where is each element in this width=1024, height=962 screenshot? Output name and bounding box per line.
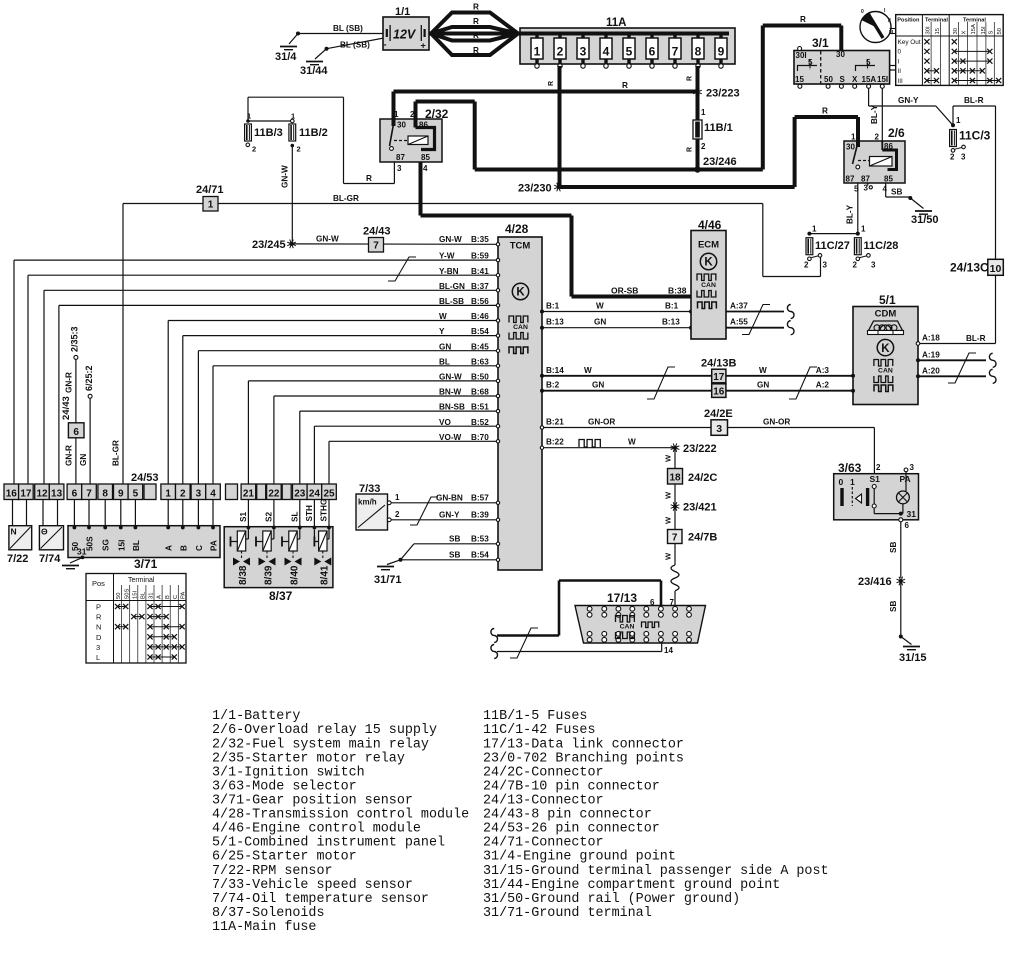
svg-text:1: 1 [812,225,817,234]
svg-text:24/71: 24/71 [196,184,224,196]
wire R rail to ignition switch 3/1 [416,15,842,170]
svg-text:1: 1 [851,133,856,142]
svg-text:R: R [622,81,628,90]
svg-text:D: D [96,633,102,642]
svg-text:6: 6 [72,489,78,500]
svg-text:3/63: 3/63 [838,461,862,475]
svg-text:R: R [473,17,479,26]
svg-text:BL (SB): BL (SB) [340,41,370,50]
fuse 11B/2 [289,112,328,154]
wire GN-OR TCM B:21 to 24/2E [540,418,711,430]
svg-text:km/h: km/h [358,498,377,507]
cable slash 17/13 left [510,628,538,658]
wire 24/53 16 to 7/22 [12,500,14,526]
svg-text:B:39: B:39 [471,510,489,519]
RPM sensor 7/22 [7,526,32,565]
fuse 11A:2 [554,34,566,69]
svg-text:24/13-Connector: 24/13-Connector [483,794,604,809]
svg-text:50S: 50S [86,536,95,551]
svg-text:7: 7 [373,241,379,252]
svg-text:B:63: B:63 [471,357,489,366]
svg-text:0: 0 [861,9,864,15]
svg-text:31: 31 [907,509,917,519]
fuse 11A:4 [600,34,612,69]
svg-text:BL: BL [439,357,450,366]
svg-text:5: 5 [133,489,139,500]
svg-text:31/71-Ground terminal: 31/71-Ground terminal [483,906,652,921]
wire 24/53 17 to 7/22 [26,500,28,526]
svg-text:24/71-Connector: 24/71-Connector [483,836,604,851]
wire BN-SB TCM B:51 to 24/53 [300,403,500,484]
svg-text:B:41: B:41 [471,267,489,276]
svg-text:SB: SB [449,550,460,559]
wire GN 24/13B 16 to CDM A:2 [726,381,853,391]
svg-text:87: 87 [861,175,870,184]
svg-text:A:2: A:2 [816,381,830,390]
svg-text:8: 8 [102,489,108,500]
svg-text:11C/3: 11C/3 [959,129,991,143]
svg-text:15I: 15I [117,540,126,551]
wire 24/53 12 to 7/74 [42,500,44,526]
svg-text:11C/27: 11C/27 [815,240,850,252]
wire GN TCM B:2 to 24/13B 16 [540,381,712,393]
svg-text:23/222: 23/222 [683,443,717,455]
wire S1 24/53 21 to 8/38 [239,500,250,530]
svg-text:PA: PA [181,592,187,599]
svg-text:S2: S2 [265,512,274,522]
svg-text:Y-W: Y-W [439,252,455,261]
svg-text:50: 50 [997,28,1003,34]
svg-text:87: 87 [396,153,405,162]
wire pin1 rail 11B/3 to 11B/2 [248,120,292,122]
svg-text:30I: 30I [796,51,807,60]
svg-text:III: III [898,78,904,85]
connector 24/43 pin 6 [68,423,84,438]
svg-text:11A-Main fuse: 11A-Main fuse [212,920,316,935]
fuse 11A:9 [715,34,727,69]
svg-text:TCM: TCM [510,241,531,252]
svg-text:22: 22 [268,489,280,500]
svg-text:Key Out: Key Out [898,39,921,46]
svg-text:B:1: B:1 [546,302,560,311]
svg-text:4/46-Engine control module: 4/46-Engine control module [212,822,421,837]
wire bundle R x4 battery to 11A [429,3,520,56]
ground 31/15 [899,637,927,665]
svg-text:5: 5 [626,45,633,59]
wire A:55 ECM continuation [726,318,794,335]
ground 31/44 [300,47,329,77]
wire R fuse 11A:2 down to 23/230 [548,66,560,187]
svg-text:A:3: A:3 [816,366,830,375]
solenoid block 8/37 [224,527,333,588]
svg-text:21: 21 [243,489,255,500]
main fuse box 11A [518,17,735,64]
svg-text:B:37: B:37 [471,282,489,291]
svg-text:23/246: 23/246 [703,156,737,168]
svg-text:W: W [439,312,447,321]
svg-text:R: R [822,107,828,116]
svg-text:3: 3 [580,45,587,59]
svg-text:R: R [96,613,102,622]
svg-text:GN-W: GN-W [316,235,339,244]
svg-text:B:46: B:46 [471,312,489,321]
cable slash 7/33 [410,497,438,525]
fuse 11C/3 [950,116,991,162]
svg-text:B:1: B:1 [665,302,679,311]
svg-text:4: 4 [210,489,216,500]
svg-text:II: II [898,68,902,75]
svg-text:23/0-702 Branching points: 23/0-702 Branching points [483,751,684,766]
svg-text:7/74: 7/74 [39,553,61,565]
svg-text:B:70: B:70 [471,433,489,442]
svg-text:23/421: 23/421 [683,502,717,514]
node 23/246 [694,156,736,173]
svg-text:W: W [664,454,673,462]
svg-text:2: 2 [950,153,955,162]
svg-text:15: 15 [935,28,941,34]
svg-text:W: W [664,516,673,524]
svg-text:2: 2 [557,45,564,59]
svg-text:17/13: 17/13 [607,591,637,605]
svg-text:0: 0 [898,49,902,56]
svg-text:ECM: ECM [698,240,719,251]
svg-text:2: 2 [180,489,186,500]
cable slash TCM left [388,257,416,281]
wire SB TCM B:54 to 31/71 [399,550,500,562]
svg-text:3/63-Mode selector: 3/63-Mode selector [212,780,357,795]
svg-text:9: 9 [718,45,725,59]
pin circle TCM B:35 [439,235,500,246]
svg-text:BN-W: BN-W [439,388,462,397]
svg-text:W: W [628,438,636,447]
svg-text:23: 23 [294,489,306,500]
svg-text:B:57: B:57 [471,493,489,502]
svg-text:W: W [664,491,673,499]
node 23/245 [252,239,296,251]
svg-text:15: 15 [795,75,804,84]
svg-text:SB: SB [889,542,898,553]
wire W 23/421 to 24/7B [664,507,676,530]
svg-text:8/41: 8/41 [319,565,330,585]
svg-text:6: 6 [73,427,79,438]
svg-text:23/245: 23/245 [252,239,286,251]
svg-text:B:68: B:68 [471,388,489,397]
svg-text:2/35-Starter motor relay: 2/35-Starter motor relay [212,751,405,766]
svg-text:17: 17 [20,489,32,500]
svg-text:BN-SB: BN-SB [439,403,465,412]
svg-text:A:55: A:55 [730,318,748,327]
svg-text:8/39: 8/39 [264,565,275,585]
svg-text:15A: 15A [971,24,977,34]
cable slash ECM right [742,305,770,335]
fuse 11A:7 [669,34,681,69]
svg-text:BL-SB: BL-SB [439,297,464,306]
svg-text:1: 1 [701,108,706,117]
svg-text:11B/3: 11B/3 [254,127,283,139]
svg-text:R: R [687,76,694,81]
svg-text:B:13: B:13 [546,318,564,327]
svg-text:17: 17 [713,372,725,383]
label 3/71 [134,557,158,571]
svg-text:2: 2 [853,261,858,270]
fuse 11A:1 [531,34,543,69]
svg-text:CDM: CDM [875,309,897,320]
wire BL-GR 24/71 right to 11C/27 pin3 [218,194,821,277]
connector 24/2C pin 18 [668,469,718,485]
ground 31/50 [911,211,939,226]
svg-text:GN: GN [79,454,88,466]
svg-text:X: X [852,75,858,84]
wire GN-OR 24/2E to 3/63 pin 2 [728,418,875,487]
svg-text:24/43: 24/43 [61,396,72,420]
svg-text:GN: GN [594,318,606,327]
svg-text:BL-GN: BL-GN [439,282,465,291]
svg-text:Pos: Pos [92,579,105,588]
svg-text:2: 2 [701,142,706,151]
svg-text:3/1: 3/1 [812,36,829,50]
svg-text:W: W [664,552,673,560]
svg-text:6/25-Starter motor: 6/25-Starter motor [212,850,357,865]
svg-text:BL-GR: BL-GR [112,440,121,466]
fuse 11A:6 [646,34,658,69]
svg-text:3: 3 [823,261,828,270]
svg-text:4: 4 [603,45,610,59]
svg-text:11B/2: 11B/2 [299,127,328,139]
pin 7 label 17/13 [670,598,675,607]
svg-text:R: R [473,31,479,40]
svg-text:SL: SL [290,512,299,522]
svg-text:Y: Y [439,327,445,336]
node 23/416 [858,576,905,588]
combined instrument panel 5/1 CDM [853,293,918,405]
svg-text:8/37-Solenoids: 8/37-Solenoids [212,906,325,921]
svg-text:15A: 15A [862,75,877,84]
svg-text:24/7B-10 pin connector: 24/7B-10 pin connector [483,780,660,795]
ignition key cylinder icon [860,8,896,43]
svg-text:B:59: B:59 [471,252,489,261]
wire STHG 24/53 25 to 8/41 [320,499,331,530]
wire OR-SB 2/32 pin4 to ECM B:38 [421,162,692,297]
svg-text:S: S [840,75,846,84]
wire R 2/32 pin3 to fuse rail [248,97,394,183]
svg-text:85: 85 [884,175,893,184]
svg-text:24/13B: 24/13B [701,358,737,370]
svg-text:31/71: 31/71 [374,574,402,586]
svg-text:3: 3 [196,489,202,500]
ground 31/71 [374,560,402,586]
svg-text:30: 30 [397,121,406,130]
vehicle speed sensor 7/33 [356,483,400,530]
svg-text:11B/1-5 Fuses: 11B/1-5 Fuses [483,709,587,724]
svg-text:3: 3 [96,643,100,652]
wire A:37 ECM continuation [726,302,794,319]
svg-text:VO: VO [439,418,451,427]
wire GN-R 2/35:3 to 24/53 pin 6 [61,326,80,484]
legend column 2 [483,709,829,921]
svg-text:31/4: 31/4 [275,51,297,63]
svg-text:GN-Y: GN-Y [439,510,460,519]
fuse 11B/3 [245,112,283,154]
svg-text:B:53: B:53 [471,534,489,543]
fuse 11A:3 [577,34,589,69]
wire A:20 CDM continuation [916,366,996,383]
svg-text:B:54: B:54 [471,550,489,559]
svg-text:16: 16 [6,489,18,500]
wire thick 17/13 pin6 continuation [491,581,661,643]
wire BL-R 11C/3 to 24/13C [953,96,996,259]
svg-text:K: K [516,287,525,299]
gear position table 3/71 [86,574,187,664]
connector 24/71 [196,184,224,211]
transmission control module 4/28 TCM [498,222,542,570]
overload relay 2/6 [844,117,905,184]
svg-text:GN-W: GN-W [439,235,462,244]
svg-text:2/6: 2/6 [888,126,905,140]
svg-text:13: 13 [51,489,63,500]
wire BL-SB TCM B:56 to 24/53 [59,297,500,484]
svg-text:24/53: 24/53 [131,472,159,484]
svg-text:1: 1 [534,45,541,59]
svg-text:23/223: 23/223 [706,88,740,100]
svg-text:VO-W: VO-W [439,433,462,442]
svg-text:1: 1 [165,489,171,500]
pin labels 2/6 bottom [854,183,888,194]
svg-text:11C/1-42 Fuses: 11C/1-42 Fuses [483,723,596,738]
svg-text:OR-SB: OR-SB [611,286,638,296]
wire BN-W TCM B:68 to 24/53 [274,388,500,484]
svg-text:8/38: 8/38 [238,565,249,585]
svg-text:16: 16 [713,387,725,398]
svg-text:GN: GN [757,381,769,390]
svg-text:BL-GR: BL-GR [333,194,359,203]
svg-text:7: 7 [670,598,675,607]
svg-text:Y-BN: Y-BN [439,267,459,276]
svg-text:10: 10 [990,263,1002,275]
svg-text:4: 4 [423,164,428,173]
svg-text:A:37: A:37 [730,302,748,311]
wire GN-Y 3/1 15A to 11C/3 [869,88,953,125]
ignition switch position table [896,15,1004,86]
connector 24/7B pin 7 [668,530,718,544]
data link connector 17/13 [575,591,706,643]
pin 6 3/63 [899,518,910,530]
svg-text:A:20: A:20 [922,366,940,375]
svg-text:24/43: 24/43 [363,226,391,238]
svg-text:7: 7 [672,45,679,59]
svg-text:4: 4 [883,185,888,194]
fuse 11C/28 [853,238,899,270]
wire 17/13 pin14 continuation [491,643,662,659]
svg-text:B:2: B:2 [546,381,560,390]
ignition switch 3/1 [794,36,896,88]
svg-text:30: 30 [836,50,845,59]
svg-text:31: 31 [77,547,87,557]
svg-text:8/37: 8/37 [269,589,293,603]
cable slash 24/13B right [789,367,817,399]
pin 6 label 17/13 [650,598,655,607]
wire S2 24/53 22 to 8/39 [265,500,276,530]
svg-text:24/2C: 24/2C [688,472,717,484]
svg-text:7/74-Oil temperature sensor: 7/74-Oil temperature sensor [212,892,429,907]
svg-text:GN: GN [592,381,604,390]
wire R 11B/1 to 23/246 [687,139,698,170]
wire W TCM B:46 to 24/53 [168,312,500,484]
svg-text:24/2E: 24/2E [704,408,733,420]
wire SB 2/6 pin4 to ground 31/50 [886,183,924,209]
svg-text:3: 3 [961,153,966,162]
wire W TCM B:1 to ECM B:1 [540,302,693,314]
svg-text:K: K [704,257,713,269]
wire BL-Y 3/1 15I to 2/6 pin2 [870,88,882,141]
svg-text:87: 87 [846,175,855,184]
wire BL(SB) 31/4 to battery [298,24,383,34]
ground 31/4 [275,32,300,64]
wire GN-W TCM B:50 to 24/53 [248,373,499,485]
svg-text:GN-W: GN-W [281,165,290,188]
svg-text:6/25:2: 6/25:2 [84,365,94,391]
svg-text:CAN: CAN [513,324,528,331]
svg-text:-: - [384,40,387,50]
svg-text:11B/1: 11B/1 [704,122,733,134]
relay 2/32 fuel system main relay [380,92,449,163]
svg-text:12V: 12V [393,28,417,42]
wire GN TCM B:45 to 24/53 [198,342,499,484]
cable slash CDM right [948,353,976,383]
svg-text:30I: 30I [925,26,931,34]
svg-text:24/7B: 24/7B [688,532,717,544]
legend column 1 [212,709,469,935]
svg-text:X: X [961,31,967,35]
wire 24/53 13 to 7/74 [57,500,59,526]
svg-text:18: 18 [669,473,681,484]
mode selector 3/63 [834,461,919,520]
svg-text:B:14: B:14 [546,366,564,375]
svg-text:STH: STH [305,505,314,521]
svg-text:B:45: B:45 [471,342,489,351]
wire W 24/2C to 23/421 [664,484,676,507]
svg-text:31/50: 31/50 [911,214,939,226]
svg-text:4/28: 4/28 [505,222,529,236]
svg-text:25: 25 [323,489,335,500]
engine control module 4/46 ECM [691,218,726,339]
wire VO-W TCM B:70 to 24/53 [329,433,500,484]
solenoid 8/39 [256,528,276,586]
svg-text:7/22: 7/22 [7,553,28,565]
cable slash 24/13B left [647,367,675,399]
wire BL-Y 2/6 pin5 to 11C/27 11C/28 [846,183,860,236]
svg-text:R: R [800,15,806,24]
svg-text:50: 50 [824,75,833,84]
svg-text:15I: 15I [877,75,888,84]
svg-text:30: 30 [953,28,959,34]
wire R 2/32 pin1 to 23/223 [394,81,698,92]
wire BL-GN TCM B:37 to 24/53 [44,282,500,484]
wire W TCM B:14 to 24/13B 17 [540,366,712,378]
svg-text:7: 7 [672,533,678,544]
battery 1/1 [383,6,429,51]
svg-text:SG: SG [102,539,111,551]
svg-text:31/44: 31/44 [300,65,328,77]
wire Y-W TCM B:59 to 24/53 [14,252,500,484]
svg-text:24/2C-Connector: 24/2C-Connector [483,765,604,780]
svg-text:P: P [96,603,101,612]
svg-text:7/33: 7/33 [359,483,380,495]
svg-text:1: 1 [956,116,961,125]
wire W 23/222 to 24/2C [664,448,676,469]
wire SB 23/416 to ground 31/15 [889,583,903,639]
solenoid 8/40 [282,528,302,586]
svg-text:5/1: 5/1 [879,293,896,307]
